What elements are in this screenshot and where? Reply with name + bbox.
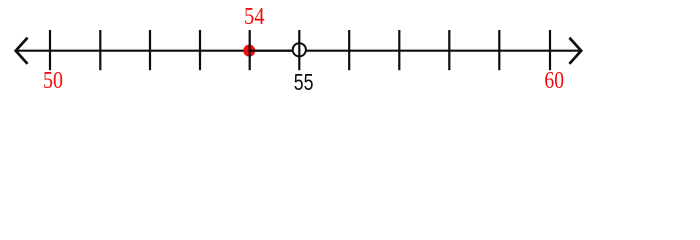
tick 53: [199, 30, 201, 70]
right arrowhead: [569, 38, 581, 64]
tick 58: [448, 30, 450, 70]
tick 60: [549, 30, 551, 70]
svg-text:55: 55: [294, 69, 314, 95]
tick 52: [149, 30, 151, 70]
tick 50: [49, 30, 51, 70]
svg-text:54: 54: [244, 4, 265, 30]
svg-text:60: 60: [544, 68, 564, 94]
tick 51: [99, 30, 101, 70]
tick 54: [249, 30, 251, 70]
number line main horizontal line: [16, 50, 582, 52]
svg-text:50: 50: [43, 68, 63, 94]
closed (filled) red point plotted at 54: [243, 45, 255, 57]
tick 56: [348, 30, 350, 70]
tick 55: [298, 30, 300, 70]
wire: line segment from 54 to 55 drawn over the red point: [250, 50, 296, 52]
tick 57: [398, 30, 400, 70]
tick 59: [498, 30, 500, 70]
open point (white-filled circle) at 55: [293, 43, 306, 56]
left arrowhead: [16, 38, 28, 64]
